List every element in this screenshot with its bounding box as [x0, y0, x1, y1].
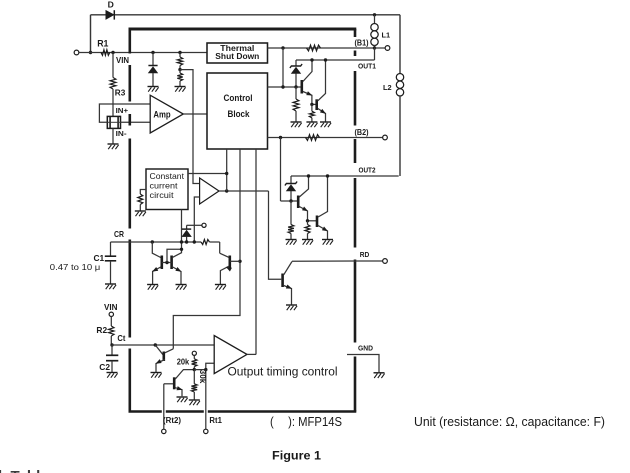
svg-text:RD: RD: [360, 250, 370, 259]
resistor 30k: [193, 370, 195, 384]
junction Q3 collector: [307, 174, 310, 177]
junction L1 top: [373, 13, 376, 16]
ground Q RD: [286, 304, 297, 306]
resistor ccc: [138, 194, 143, 205]
svg-text:R1: R1: [97, 38, 108, 48]
svg-text:IN+: IN+: [116, 106, 129, 115]
wire R1 rail: [79, 52, 207, 54]
svg-text:30k: 30k: [198, 370, 207, 384]
junction ccc out: [225, 172, 228, 175]
terminal VIN bottom: [109, 312, 113, 316]
IC package box left edge: [129, 29, 132, 54]
svg-text:20k: 20k: [177, 358, 190, 367]
wire bus A: [226, 149, 228, 191]
op-amp Amp: [150, 95, 183, 133]
resistor R1: [101, 50, 110, 56]
inductor L1: [374, 15, 376, 24]
resistor R2: [110, 317, 112, 327]
capacitor C1: [110, 242, 112, 256]
junction 20k 30k: [193, 368, 196, 371]
svg-text:OUT1: OUT1: [358, 62, 377, 71]
svg-text:Ct: Ct: [117, 333, 125, 343]
transistor mirror left: [161, 256, 164, 270]
svg-text:Control: Control: [224, 93, 253, 104]
ground base2 resistor: [286, 239, 297, 241]
wire IN- to amp: [121, 121, 151, 123]
wire B2 drop: [280, 138, 282, 202]
junction Ct tap: [154, 343, 157, 346]
ground ccc: [135, 210, 146, 212]
wire comp out drop: [269, 191, 282, 279]
svg-text:( ): MFP14S: ( ): MFP14S: [270, 414, 342, 429]
junction divider: [178, 51, 181, 54]
ground sensor: [108, 143, 119, 145]
ground mirror left: [147, 284, 158, 286]
junction Ct: [110, 343, 113, 346]
resistor Q2 base: [311, 104, 313, 111]
IC package box right edge: [354, 29, 357, 37]
junction base1 left: [281, 85, 284, 88]
junction mirror bases: [165, 261, 168, 264]
junction B1 left: [281, 46, 284, 49]
wire Q4 base: [308, 220, 318, 222]
svg-text:Amp: Amp: [153, 110, 170, 121]
wire left vertical: [90, 15, 92, 53]
ground C2: [107, 372, 118, 374]
wire bus B: [173, 149, 240, 349]
ground Q4 emitter: [322, 239, 333, 241]
junction Q2 collector: [324, 58, 327, 61]
wire top rail: [91, 14, 401, 16]
resistor base2: [290, 201, 292, 225]
wire pnp base: [230, 260, 240, 262]
wire B1 rail: [268, 47, 375, 49]
transistor Q6: [173, 377, 176, 389]
resistor divider upper: [179, 53, 181, 58]
block Control Block: [207, 73, 268, 149]
junction: [89, 51, 92, 54]
wire Q2 base: [312, 103, 317, 105]
junction pnp base: [238, 260, 241, 263]
wire ot output: [247, 353, 256, 355]
junction L1 bottom: [373, 46, 376, 49]
op-amp output timing: [214, 336, 247, 374]
junction ccc drop: [180, 240, 183, 243]
wire ccc bottom drop: [181, 210, 183, 250]
junction Rt1 tap: [204, 368, 207, 371]
ground Q5: [151, 372, 162, 374]
svg-text:0.47 to 10 μ: 0.47 to 10 μ: [50, 262, 101, 272]
ground base1 resistor: [291, 121, 302, 123]
svg-text:(Rt2): (Rt2): [163, 416, 181, 425]
wire base2: [281, 200, 299, 202]
junction mirror left: [151, 240, 154, 243]
op-amp comparator: [200, 178, 219, 204]
svg-text:Shut Down: Shut Down: [215, 51, 259, 61]
transistor Q1: [300, 80, 303, 94]
transistor Q4: [316, 216, 319, 228]
junction zener2 anode: [289, 199, 292, 202]
svg-text:(B1): (B1): [355, 39, 369, 48]
resistor CR: [201, 240, 210, 245]
svg-text:Unit (resistance: Ω, capacitan: Unit (resistance: Ω, capacitance: F): [414, 415, 605, 429]
diode D: [106, 10, 114, 19]
wire B2 stub: [355, 137, 383, 139]
IC package box bottom edge: [129, 410, 162, 413]
svg-text:Output timing control: Output timing control: [228, 364, 338, 378]
svg-text:OUT2: OUT2: [359, 165, 376, 174]
svg-text:D: D: [108, 0, 114, 9]
transistor mirror right: [170, 256, 173, 270]
svg-text:IN-: IN-: [116, 129, 128, 138]
wire comp out: [219, 190, 269, 192]
wire B2 rail: [268, 137, 356, 139]
ground Q4 base resistor: [302, 239, 313, 241]
junction mirror hook: [180, 248, 183, 251]
wire comp minus stub: [194, 197, 199, 242]
wire ccc output: [188, 173, 227, 175]
wire IN+ loop: [99, 104, 150, 122]
terminal Rt1: [204, 429, 208, 433]
wire Rt1 jog: [194, 363, 214, 369]
wire Q6 base: [164, 383, 173, 385]
svg-text:circuit: circuit: [150, 190, 175, 200]
wire RD stub: [355, 260, 383, 262]
svg-text:R3: R3: [115, 89, 126, 98]
wire GND: [347, 355, 379, 373]
svg-text:Figure 1: Figure 1: [272, 448, 321, 462]
ground divider: [175, 86, 186, 88]
svg-text:current: current: [150, 181, 179, 191]
svg-text:GND: GND: [358, 344, 374, 353]
block Thermal Shut Down: [207, 43, 268, 63]
terminal Rt2: [162, 429, 166, 433]
transistor Q RD: [281, 274, 284, 288]
svg-text:Block: Block: [228, 109, 251, 120]
wire CR pin stub: [187, 224, 202, 226]
transistor pnp CR: [229, 256, 232, 269]
ground Q2 base resistor: [306, 121, 317, 123]
ground zener: [148, 86, 159, 88]
wire mirror diode hook: [167, 249, 182, 262]
terminal VIN input: [74, 50, 79, 55]
sensor element: [107, 116, 120, 128]
junction diode CR anode: [185, 240, 188, 243]
ground GND pin: [374, 372, 385, 374]
ground Q2 emitter: [320, 121, 331, 123]
capacitor C2: [111, 345, 113, 355]
wire Ct rail: [112, 344, 214, 346]
wire ccc resistor arm: [140, 190, 146, 195]
wire Rt2 drop: [163, 384, 165, 429]
wire B1 stub: [375, 47, 386, 49]
junction comp out: [225, 189, 228, 192]
svg-text:(B2): (B2): [355, 128, 369, 137]
junction Q4 collector: [326, 174, 329, 177]
junction B2 left: [279, 136, 282, 139]
IC package box top edge: [129, 28, 357, 31]
inductor L2: [396, 74, 403, 81]
resistor divider lower: [179, 70, 181, 73]
svg-text:VIN: VIN: [116, 56, 129, 65]
wire amp output: [183, 113, 207, 115]
transistor Q5: [155, 345, 163, 355]
junction zener1 anode: [294, 85, 297, 88]
junction Q4 base: [306, 219, 309, 222]
svg-text:Constant: Constant: [150, 171, 185, 181]
junction zener: [151, 51, 154, 54]
wire right rail upper: [399, 15, 401, 74]
junction divider tap: [178, 68, 181, 71]
wire divider tap bus: [180, 70, 200, 184]
diode CR: [186, 225, 188, 229]
svg-text:Rt1: Rt1: [209, 416, 222, 425]
wire base1 from control: [268, 86, 301, 88]
ground pnp: [215, 284, 226, 286]
transistor Q2: [315, 99, 318, 110]
wire sensor ground: [112, 128, 114, 143]
wire Rt1 drop: [205, 370, 207, 430]
junction Q1 collector: [310, 58, 313, 61]
wire mirror bases: [162, 262, 172, 264]
block Constant current circuit: [146, 169, 188, 210]
svg-text:VIN: VIN: [104, 302, 118, 312]
wire OUT2 rail: [291, 175, 399, 177]
diode zener VIN rail: [152, 53, 154, 66]
resistor 20k: [193, 355, 195, 358]
wire OUT1 rail: [296, 59, 375, 61]
svg-text:C2: C2: [99, 362, 110, 372]
terminal B1: [385, 46, 390, 51]
junction comp minus: [193, 240, 196, 243]
wire CR corner down: [219, 242, 221, 253]
svg-text:L2: L2: [383, 83, 392, 92]
svg-text:R2: R2: [96, 325, 107, 335]
wire bus C: [255, 149, 257, 355]
svg-text:CR: CR: [114, 230, 124, 239]
wire RD rail: [292, 260, 355, 262]
terminal RD: [383, 259, 388, 264]
junction Q2 base: [310, 103, 313, 106]
resistor base1: [295, 87, 297, 99]
resistor B1: [307, 45, 321, 51]
resistor B2: [306, 135, 320, 141]
wire OUT1 jog: [374, 48, 376, 60]
terminal B2: [383, 135, 388, 140]
resistor R3: [112, 53, 114, 78]
transistor Q3: [297, 196, 300, 209]
diode zener OUT2: [290, 176, 292, 184]
ground mirror right: [176, 284, 187, 286]
wire B1 drop: [282, 48, 284, 87]
ground 30k: [189, 399, 200, 401]
wire right rail lower: [399, 96, 401, 176]
svg-text:L1: L1: [382, 31, 391, 40]
junction R3 tap: [111, 51, 114, 54]
terminal 20k top: [192, 351, 196, 355]
diode zener OUT1: [295, 60, 297, 66]
svg-text:k Table: k Table: [0, 468, 49, 473]
wire CR rail: [111, 241, 202, 243]
resistor Q4 base: [307, 221, 309, 225]
ground C1: [105, 283, 116, 285]
ground Q6 emitter: [177, 396, 188, 398]
terminal CR aux: [202, 223, 206, 227]
